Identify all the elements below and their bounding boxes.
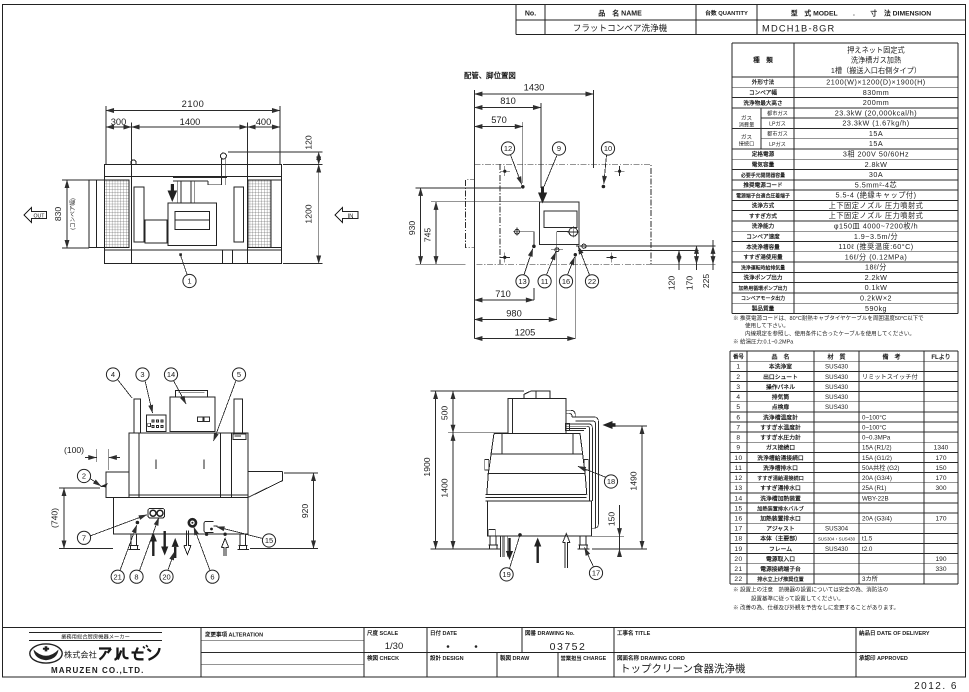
- front view: door handle marks: [156, 460, 204, 470]
- side view: hood trapezoid body: [487, 433, 587, 494]
- svg-text:300: 300: [111, 117, 127, 127]
- svg-text:120: 120: [304, 135, 314, 150]
- svg-text:コンベア速度: コンベア速度: [746, 232, 780, 240]
- svg-text:0~100°C: 0~100°C: [862, 424, 887, 431]
- svg-text:0.2kW×2: 0.2kW×2: [860, 293, 892, 302]
- piping diagram: dimensions 120 / 170 / 225: [667, 240, 714, 290]
- piping diagram: balloon 13 with leader: [516, 275, 529, 288]
- svg-text:170: 170: [935, 455, 946, 462]
- svg-text:使用して下さい。: 使用して下さい。: [745, 322, 789, 330]
- piping diagram: dimension 930: [407, 188, 521, 264]
- svg-text:1205: 1205: [515, 328, 536, 338]
- side view: balloon 18 with leader: [604, 475, 617, 488]
- side view: dimension 1400: [439, 433, 453, 549]
- svg-text:製品質量: 製品質量: [752, 304, 775, 312]
- piping diagram: connection point 11 (circle): [551, 248, 563, 252]
- front view: balloon 21 with leader: [111, 570, 124, 583]
- svg-text:すすぎ方式: すすぎ方式: [749, 212, 777, 220]
- svg-text:品 名: 品 名: [771, 353, 789, 361]
- svg-text:図番 DRAWING No.: 図番 DRAWING No.: [525, 629, 575, 637]
- svg-text:番号: 番号: [732, 353, 744, 361]
- svg-text:4: 4: [111, 370, 115, 379]
- svg-text:21: 21: [734, 566, 742, 573]
- svg-text:9: 9: [557, 144, 561, 153]
- svg-text:種 類: 種 類: [753, 55, 773, 64]
- svg-text:5: 5: [237, 370, 241, 379]
- svg-text:500: 500: [439, 406, 449, 421]
- front view: left exhaust pillar: [134, 399, 141, 433]
- svg-text:アジャスト: アジャスト: [766, 526, 795, 533]
- svg-text:日付 DATE: 日付 DATE: [430, 629, 457, 637]
- svg-text:品 名 NAME: 品 名 NAME: [598, 8, 642, 17]
- svg-text:排気筒: 排気筒: [772, 393, 790, 401]
- front view: dimension (100): [64, 445, 120, 470]
- svg-text:すすぎ水温度計: すすぎ水温度計: [760, 423, 801, 431]
- svg-text:SUS430: SUS430: [825, 404, 849, 411]
- svg-text:14: 14: [167, 370, 175, 379]
- svg-text:710: 710: [495, 289, 511, 299]
- plan view: IN arrow: [335, 207, 358, 222]
- svg-text:2100(W)×1200(D)×1900(H): 2100(W)×1200(D)×1900(H): [826, 78, 925, 87]
- svg-text:外形寸法: 外形寸法: [751, 78, 775, 86]
- svg-text:※ 改善の為、仕様及び外観を予告なしに変更することがあります: ※ 改善の為、仕様及び外観を予告なしに変更することがあります。: [733, 604, 899, 612]
- svg-text:2.8kW: 2.8kW: [865, 160, 888, 169]
- svg-text:尺度 SCALE: 尺度 SCALE: [367, 629, 399, 637]
- svg-text:13: 13: [518, 277, 526, 286]
- svg-text:200mm: 200mm: [863, 98, 889, 107]
- front view: name plate: [233, 434, 246, 440]
- svg-text:4: 4: [736, 394, 740, 401]
- svg-text:18: 18: [734, 536, 742, 543]
- svg-text:※ 給湯圧力:0.1~0.2MPa: ※ 給湯圧力:0.1~0.2MPa: [733, 338, 794, 346]
- front view: balloon 5 with leader: [232, 368, 245, 381]
- svg-text:電源取入口: 電源取入口: [766, 555, 795, 563]
- svg-text:03752: 03752: [550, 641, 587, 653]
- svg-text:830: 830: [53, 207, 63, 222]
- svg-text:3: 3: [736, 384, 740, 391]
- svg-text:7: 7: [82, 534, 86, 543]
- plan view: balloon 1: [183, 274, 196, 287]
- svg-text:電気容量: 電気容量: [752, 161, 775, 169]
- svg-text:20: 20: [162, 572, 170, 581]
- svg-text:本体（主要部）: 本体（主要部）: [760, 535, 801, 543]
- svg-text:170: 170: [935, 516, 946, 523]
- svg-text:10: 10: [734, 455, 742, 462]
- svg-text:コンベアモータ出力: コンベアモータ出力: [741, 295, 785, 302]
- front view: balloon 15 with leader: [262, 534, 275, 547]
- svg-text:トップクリーン食器洗浄機: トップクリーン食器洗浄機: [620, 662, 746, 675]
- svg-text:50A共栓 (G2): 50A共栓 (G2): [862, 464, 899, 472]
- svg-text:SUS430: SUS430: [825, 364, 849, 371]
- plan view: left interior slot: [134, 187, 144, 242]
- svg-text:洗浄方式: 洗浄方式: [752, 202, 775, 210]
- piping diagram: gas connection arrow 9 (filled): [538, 187, 547, 204]
- svg-text:5.5mm²-4芯: 5.5mm²-4芯: [855, 180, 897, 189]
- svg-text:23.3kW (20,000kcal/h): 23.3kW (20,000kcal/h): [835, 108, 917, 117]
- piping diagram: connection point 10 (dot): [602, 185, 606, 189]
- svg-text:22: 22: [588, 277, 596, 286]
- svg-text:2012. 6: 2012. 6: [914, 681, 958, 692]
- svg-text:排水立上げ推奨位置: 排水立上げ推奨位置: [757, 575, 804, 583]
- svg-text:25A (R1): 25A (R1): [862, 485, 886, 492]
- plan view: small pump box: [145, 220, 167, 243]
- svg-text:6: 6: [736, 414, 740, 421]
- svg-text:配管、脚位置図: 配管、脚位置図: [464, 71, 516, 80]
- svg-text:225: 225: [701, 274, 711, 289]
- piping diagram: bottom dimension 710: [474, 288, 534, 300]
- svg-text:19: 19: [502, 570, 510, 579]
- svg-text:SUS430: SUS430: [825, 384, 849, 391]
- svg-text:2: 2: [82, 472, 86, 481]
- piping diagram: common extension line left: [473, 90, 475, 339]
- svg-text:本洗浄槽容量: 本洗浄槽容量: [746, 243, 780, 251]
- svg-text:No.: No.: [525, 10, 536, 17]
- piping diagram: connection point 16 (dot): [574, 253, 577, 339]
- svg-text:定格電源: 定格電源: [751, 150, 775, 158]
- front view: balloon 20 with leader: [160, 570, 173, 583]
- svg-text:23.3kW (1.67kg/h): 23.3kW (1.67kg/h): [842, 119, 909, 128]
- svg-text:SUS430: SUS430: [825, 394, 849, 401]
- side view: tank rim lines: [486, 495, 587, 502]
- svg-text:930: 930: [407, 221, 417, 236]
- plan view: dimension 2100: [106, 99, 280, 165]
- svg-text:洗浄物最大高さ: 洗浄物最大高さ: [743, 99, 782, 107]
- svg-text:810: 810: [500, 96, 516, 106]
- svg-text:承認印 APPROVED: 承認印 APPROVED: [859, 654, 908, 662]
- svg-text:OUT: OUT: [34, 214, 46, 220]
- plan view: dimensions 300 / 1400 / 400: [106, 117, 280, 165]
- plan view: OUT arrow: [24, 207, 47, 222]
- piping diagram: bottom dimension 1205: [474, 328, 575, 339]
- svg-text:ガス: ガス: [741, 133, 753, 141]
- svg-text:3: 3: [140, 370, 144, 379]
- side view: inlet arrow (filled, pointing left): [603, 421, 616, 429]
- svg-text:2100: 2100: [182, 99, 205, 109]
- svg-text:SUS304・SUS430: SUS304・SUS430: [818, 537, 856, 542]
- svg-text:※ 推奨電源コードは、80°C耐熱キャブタイヤケーブルを周囲: ※ 推奨電源コードは、80°C耐熱キャブタイヤケーブルを周囲温度50°C以下で: [733, 314, 924, 322]
- svg-text:21: 21: [114, 572, 122, 581]
- plan view: wash tank box: [168, 203, 217, 246]
- front view: balloon 3 with leader: [136, 368, 149, 381]
- side view: dimension 150: [592, 505, 624, 557]
- svg-text:920: 920: [300, 504, 310, 519]
- svg-text:3カ所: 3カ所: [862, 575, 878, 583]
- svg-text:納品日 DATE OF DELIVERY: 納品日 DATE OF DELIVERY: [859, 629, 930, 637]
- svg-text:12: 12: [734, 475, 742, 482]
- svg-text:SUS430: SUS430: [825, 374, 849, 381]
- parts table notes: [733, 586, 899, 612]
- front view: heater unit box 14: [170, 391, 215, 432]
- svg-text:30A: 30A: [869, 170, 883, 179]
- svg-text:0~100°C: 0~100°C: [862, 414, 887, 421]
- svg-text:170: 170: [685, 276, 695, 291]
- svg-text:必要手元開閉器容量: 必要手元開閉器容量: [740, 172, 785, 179]
- svg-text:1340: 1340: [934, 445, 949, 452]
- svg-text:120: 120: [667, 276, 677, 291]
- svg-text:営業担当 CHARGE: 営業担当 CHARGE: [561, 654, 607, 662]
- svg-text:洗浄ポンプ出力: 洗浄ポンプ出力: [744, 274, 783, 282]
- svg-text:点検扉: 点検扉: [772, 403, 790, 411]
- piping diagram: balloon 11 with leader: [538, 275, 551, 288]
- svg-text:8: 8: [736, 435, 740, 442]
- svg-text:10: 10: [604, 144, 612, 153]
- svg-text:備 考: 備 考: [882, 353, 900, 361]
- piping diagram: rinse water lines right: [576, 246, 715, 251]
- svg-text:1200: 1200: [304, 204, 314, 223]
- svg-text:22: 22: [734, 576, 742, 583]
- piping diagram: dimension 745: [423, 202, 540, 264]
- bottom title block: [3, 628, 966, 678]
- side view: dimension 1490: [592, 426, 647, 549]
- svg-text:2.2kW: 2.2kW: [865, 273, 888, 282]
- front view: flow arrows under base: [150, 533, 157, 557]
- specification table: [732, 43, 958, 314]
- svg-text:リミットスイッチ付: リミットスイッチ付: [862, 373, 918, 381]
- svg-text:都市ガス: 都市ガス: [767, 130, 788, 138]
- side view: dimension 500: [439, 391, 508, 433]
- svg-text:16: 16: [562, 277, 570, 286]
- svg-text:300: 300: [935, 485, 946, 492]
- svg-text:すすぎ湯排水口: すすぎ湯排水口: [760, 484, 801, 492]
- front view: drain fitting 6: [189, 519, 196, 526]
- front view: balloon 6 with leader: [206, 570, 219, 583]
- svg-text:加熱装置排水口: 加熱装置排水口: [759, 515, 801, 523]
- svg-text:ガス接続口: ガス接続口: [766, 444, 795, 452]
- svg-text:830mm: 830mm: [863, 88, 889, 97]
- svg-text:t2.0: t2.0: [862, 546, 873, 553]
- parts list table: [730, 351, 958, 584]
- svg-text:本洗浄室: 本洗浄室: [769, 363, 792, 371]
- plan view: balloon 1 leader: [179, 253, 187, 274]
- svg-text:1槽（搬送入口右側タイプ）: 1槽（搬送入口右側タイプ）: [831, 66, 921, 75]
- piping diagram: dimension 810: [474, 96, 541, 188]
- svg-text:コンベア幅: コンベア幅: [749, 89, 777, 97]
- svg-text:15A (R1/2): 15A (R1/2): [862, 445, 892, 452]
- front view: dimension (740): [50, 488, 114, 549]
- svg-text:15: 15: [265, 536, 273, 545]
- side view: balloon 19 with leader: [500, 533, 522, 581]
- svg-text:(100): (100): [64, 445, 84, 455]
- svg-text:出口シュート: 出口シュート: [763, 373, 798, 381]
- svg-text:加熱装置排水バルブ: 加熱装置排水バルブ: [756, 504, 805, 512]
- svg-text:1.9~3.5m/分: 1.9~3.5m/分: [854, 232, 898, 241]
- svg-text:190: 190: [935, 556, 946, 563]
- svg-text:1: 1: [187, 277, 191, 286]
- svg-text:洗浄槽加熱装置: 洗浄槽加熱装置: [760, 494, 801, 502]
- piping diagram: leg position marks (4): [500, 166, 510, 176]
- svg-text:電源端子台適合圧着端子: 電源端子台適合圧着端子: [736, 192, 790, 199]
- svg-text:1430: 1430: [524, 83, 545, 93]
- svg-text:150: 150: [935, 465, 946, 472]
- svg-text:7: 7: [736, 424, 740, 431]
- svg-text:フレーム: フレーム: [769, 546, 792, 553]
- svg-text:MDCH1B-8GR: MDCH1B-8GR: [762, 23, 835, 33]
- svg-text:株式会社: 株式会社: [64, 649, 97, 659]
- svg-text:内線規定を参照し、使用条件に合ったケーブルを使用してください: 内線規定を参照し、使用条件に合ったケーブルを使用してください。: [745, 330, 915, 338]
- svg-text:IN: IN: [348, 214, 354, 220]
- svg-text:590kg: 590kg: [865, 304, 887, 313]
- svg-text:接続口: 接続口: [739, 140, 755, 148]
- svg-text:170: 170: [935, 475, 946, 482]
- svg-text:ガス: ガス: [741, 114, 753, 122]
- side view: right pipe elbows and down pipe: [566, 410, 599, 528]
- front view: dimension 920: [250, 473, 318, 549]
- svg-text:LPガス: LPガス: [769, 119, 786, 127]
- svg-text:13: 13: [734, 485, 742, 492]
- svg-text:2: 2: [736, 374, 740, 381]
- plan view: piping on top of machine: [173, 153, 227, 203]
- plan view: machine body outline: [105, 165, 282, 264]
- svg-text:推奨電源コード: 推奨電源コード: [743, 181, 783, 189]
- svg-text:電源接続端子台: 電源接続端子台: [760, 565, 801, 573]
- svg-text:0~0.3MPa: 0~0.3MPa: [862, 435, 891, 442]
- svg-text:14: 14: [734, 495, 742, 502]
- svg-text:16: 16: [734, 516, 742, 523]
- svg-text:15A (G1/2): 15A (G1/2): [862, 455, 892, 462]
- piping diagram: small circle on rinse line: [578, 244, 591, 248]
- svg-text:18: 18: [607, 477, 615, 486]
- piping diagram: drain circle 13 with cross: [513, 228, 536, 248]
- side view: drain pipes bottom left: [501, 536, 508, 557]
- side view: upper hood box: [508, 398, 566, 433]
- svg-text:19: 19: [734, 546, 742, 553]
- svg-text:検図 CHECK: 検図 CHECK: [367, 654, 399, 662]
- piping diagram: bottom dimension 980: [474, 309, 556, 320]
- svg-text:8: 8: [134, 572, 138, 581]
- svg-text:φ150皿 4000~7200枚/h: φ150皿 4000~7200枚/h: [834, 221, 918, 230]
- svg-text:台数 QUANTITY: 台数 QUANTITY: [705, 9, 748, 17]
- svg-text:17: 17: [592, 569, 600, 578]
- svg-text:材 質: 材 質: [826, 353, 845, 361]
- svg-text:LPガス: LPガス: [769, 140, 786, 148]
- svg-text:15A: 15A: [869, 129, 883, 138]
- piping diagram: machine outline (chain line): [465, 164, 651, 264]
- side view: balloon 17 with leader: [589, 566, 602, 579]
- maruzen logo block: [29, 632, 162, 675]
- svg-text:11: 11: [735, 465, 743, 472]
- svg-text:都市ガス: 都市ガス: [767, 109, 788, 117]
- front view: left conveyor wing: [101, 472, 130, 498]
- side view: dimension 1900: [422, 391, 524, 549]
- svg-text:18ℓ/分: 18ℓ/分: [865, 263, 887, 272]
- svg-text:SUS304: SUS304: [825, 526, 849, 533]
- svg-text:745: 745: [423, 228, 433, 243]
- svg-text:12: 12: [504, 144, 512, 153]
- svg-text:図面名称 DRAWING CORD: 図面名称 DRAWING CORD: [617, 654, 685, 662]
- svg-text:1400: 1400: [439, 478, 449, 497]
- piping diagram: balloon 22 with leader: [585, 275, 598, 288]
- svg-text:工事名 TITLE: 工事名 TITLE: [617, 629, 651, 637]
- svg-text:上下固定ノズル 圧力噴射式: 上下固定ノズル 圧力噴射式: [829, 201, 924, 210]
- svg-text:設置基準に従って設置してください。: 設置基準に従って設置してください。: [751, 595, 844, 603]
- svg-text:すすぎ湯使用量: すすぎ湯使用量: [743, 253, 783, 261]
- svg-text:6: 6: [210, 572, 214, 581]
- svg-text:1490: 1490: [629, 471, 639, 490]
- front view: legs: [129, 534, 250, 550]
- svg-text:110ℓ (推奨温度:60°C): 110ℓ (推奨温度:60°C): [838, 242, 913, 251]
- piping diagram: dimension 570: [474, 115, 522, 183]
- svg-text:洗浄槽温度計: 洗浄槽温度計: [763, 413, 798, 421]
- svg-text:(コンベア幅): (コンベア幅): [69, 198, 77, 230]
- svg-text:FLより: FLより: [931, 354, 950, 361]
- svg-text:洗浄槽給湯接続口: 洗浄槽給湯接続口: [757, 454, 804, 462]
- svg-text:操作パネル: 操作パネル: [766, 383, 795, 391]
- svg-text:1: 1: [736, 364, 740, 371]
- plan view: top bump fitting: [131, 160, 136, 165]
- piping diagram: bottom extension line: [416, 263, 716, 265]
- svg-text:5.5-4 (絶縁キャップ付): 5.5-4 (絶縁キャップ付): [836, 191, 917, 200]
- front view: wash chamber body: [129, 433, 248, 498]
- svg-text:WBY-22B: WBY-22B: [862, 495, 889, 502]
- svg-text:16ℓ/分 (0.12MPa): 16ℓ/分 (0.12MPa): [845, 252, 908, 261]
- svg-text:SUS430: SUS430: [825, 546, 849, 553]
- svg-text:すすぎ水圧力計: すすぎ水圧力計: [760, 434, 801, 442]
- piping diagram: balloon 10 with leader: [601, 142, 614, 155]
- svg-text:9: 9: [736, 445, 740, 452]
- svg-text:15: 15: [734, 505, 742, 512]
- svg-text:MARUZEN CO.,LTD.: MARUZEN CO.,LTD.: [51, 666, 144, 675]
- svg-text:(740): (740): [50, 508, 60, 528]
- svg-text:0.1kW: 0.1kW: [865, 283, 888, 292]
- svg-text:上下固定ノズル 圧力噴射式: 上下固定ノズル 圧力噴射式: [829, 211, 924, 220]
- piping diagram: balloon 12 with leader: [501, 142, 514, 155]
- svg-text:t1.5: t1.5: [862, 536, 873, 543]
- piping diagram: balloon 16 with leader: [559, 275, 572, 288]
- front view: balloon 7 with leader: [77, 531, 90, 544]
- front view: balloon 4 with leader: [106, 368, 119, 381]
- svg-text:洗浄槽排水口: 洗浄槽排水口: [763, 464, 798, 472]
- front view: control panel box with buttons: [147, 415, 167, 432]
- svg-text:11: 11: [541, 277, 549, 286]
- front view: temperature gauges (7/8): [148, 508, 165, 518]
- plan view: dimension 830 (conveyor width): [53, 180, 89, 248]
- front view: drain valve 15: [204, 522, 218, 533]
- piping diagram: connection point 12 (dot): [521, 185, 525, 189]
- svg-text:加熱用循環ポンプ出力: 加熱用循環ポンプ出力: [738, 285, 788, 292]
- front view: base cabinet: [114, 498, 248, 534]
- plan view: right conveyor hatched belt: [248, 180, 282, 248]
- plan view: dimensions 120 / 1200: [228, 135, 323, 263]
- svg-text:980: 980: [506, 309, 522, 319]
- front view: balloon 14 with leader: [164, 368, 177, 381]
- svg-text:400: 400: [256, 117, 272, 127]
- svg-text:すすぎ湯給湯接続口: すすぎ湯給湯接続口: [757, 474, 804, 482]
- svg-text:1900: 1900: [422, 457, 432, 476]
- piping diagram: drain circle 22 with cross: [557, 226, 579, 319]
- svg-text:15A: 15A: [869, 139, 883, 148]
- piping diagram: balloon 9 with leader: [552, 142, 565, 155]
- svg-text:20A (G3/4): 20A (G3/4): [862, 516, 892, 523]
- piping diagram: wash tank box: [540, 202, 580, 245]
- svg-text:製図 DRAW: 製図 DRAW: [500, 654, 530, 662]
- plan view: gas inlet arrow (filled): [168, 184, 178, 202]
- svg-text:3相 200V 50/60Hz: 3相 200V 50/60Hz: [843, 150, 909, 159]
- svg-text:フラットコンベア洗浄機: フラットコンベア洗浄機: [573, 22, 668, 33]
- piping diagram: dimension 1430: [474, 83, 593, 169]
- svg-text:20: 20: [734, 556, 742, 563]
- plan view: left exit conveyor pieces: [89, 180, 105, 248]
- svg-text:消費量: 消費量: [739, 121, 755, 129]
- svg-text:業務用総合厨房機器メーカー: 業務用総合厨房機器メーカー: [61, 633, 130, 641]
- svg-text:洗浄槽ガス加熱: 洗浄槽ガス加熱: [851, 56, 901, 65]
- svg-text:洗浄運転時給排気量: 洗浄運転時給排気量: [741, 264, 785, 271]
- front view: balloon 8 with leader: [130, 570, 143, 583]
- svg-text:570: 570: [491, 115, 507, 125]
- side view: top vent: [524, 391, 550, 398]
- svg-text:変更事項 ALTERATION: 変更事項 ALTERATION: [205, 631, 263, 639]
- plan view: right interior slot: [234, 187, 244, 242]
- side view: legs: [488, 536, 590, 549]
